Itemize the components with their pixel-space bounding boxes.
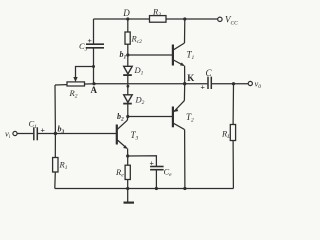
wire T1 collector to top rail <box>184 19 186 43</box>
node D <box>126 17 129 20</box>
diode D2 <box>123 95 132 104</box>
wire b2 to T2 base <box>128 116 172 118</box>
node T2-rail junction <box>183 187 186 190</box>
transistor T3 <box>117 120 128 149</box>
wire Ce to bottom rail <box>155 170 157 189</box>
svg-text:+: + <box>150 159 155 168</box>
svg-text:K: K <box>187 73 194 83</box>
wire emitter to Re <box>127 156 129 165</box>
resistor RL <box>230 125 235 141</box>
wire input lead <box>17 133 33 135</box>
wire D to Rc2 <box>127 19 129 32</box>
wire C3 to node A <box>93 48 95 84</box>
wire left drop from top rail to C3 <box>93 19 95 44</box>
wire T1 emitter to K <box>184 66 186 84</box>
terminal Vcc <box>218 17 222 21</box>
wire Re to bottom rail <box>127 180 129 189</box>
terminal vi <box>13 131 17 135</box>
wire C1 to T3 base <box>38 133 116 135</box>
capacitor C <box>208 77 211 89</box>
wire bottom rail <box>55 188 234 190</box>
resistor Re <box>125 165 130 179</box>
node output junction <box>232 82 235 85</box>
wire T2 collector to bottom rail <box>184 129 186 188</box>
resistor Rc2 <box>125 32 130 44</box>
node diode midpoint <box>127 85 130 88</box>
node collector-rail junction <box>183 17 186 20</box>
wire b1 to T1 base <box>128 54 172 56</box>
capacitor C1 <box>34 127 38 140</box>
resistor R2 (potentiometer) <box>73 77 77 82</box>
ground <box>124 189 135 203</box>
wire D2 to b2 <box>127 104 129 117</box>
node b1 <box>126 53 129 56</box>
node emitter junction <box>126 154 129 157</box>
node Re-rail junction <box>126 187 129 190</box>
diode D1 <box>123 66 132 75</box>
wire T3 emitter to node E <box>127 149 129 157</box>
wire T2 emitter to K <box>183 84 185 101</box>
wire D1 to D2 <box>127 75 129 95</box>
wire output junction to RL <box>232 84 234 125</box>
wire Rc2 to b1 <box>127 44 129 55</box>
transistor T1 <box>173 43 185 66</box>
wire top rail <box>94 18 218 20</box>
node A <box>92 82 95 85</box>
svg-text:C: C <box>206 68 213 78</box>
node Ce-rail junction <box>155 187 158 190</box>
transistor T2 <box>173 101 185 130</box>
svg-text:+: + <box>201 82 206 91</box>
wire R1 to bottom rail <box>54 172 57 189</box>
node b2 <box>126 115 129 118</box>
wire emitter to Ce <box>128 156 157 166</box>
wire b1 to D1 <box>127 55 129 66</box>
wire T3 collector to b2 <box>126 117 128 121</box>
svg-text:A: A <box>91 85 98 95</box>
svg-text:+: + <box>88 36 93 45</box>
wire RL to bottom rail <box>232 141 234 189</box>
node junction bracket-to-wire <box>92 65 95 68</box>
capacitor Ce <box>150 167 164 170</box>
node K <box>183 82 186 85</box>
resistor R1 <box>53 158 58 173</box>
svg-text:D: D <box>122 8 130 18</box>
capacitor C3 <box>86 44 104 48</box>
wire left vertical b3 branch <box>54 85 56 158</box>
terminal v0 <box>248 81 252 85</box>
svg-text:+: + <box>41 126 46 135</box>
wire K to C <box>185 83 208 85</box>
node b3 <box>54 132 57 135</box>
wire C to output terminal <box>212 83 248 85</box>
wire mid rail A-K <box>55 84 185 85</box>
resistor R3 <box>150 16 167 23</box>
wire pot wiper bracket <box>76 67 94 79</box>
